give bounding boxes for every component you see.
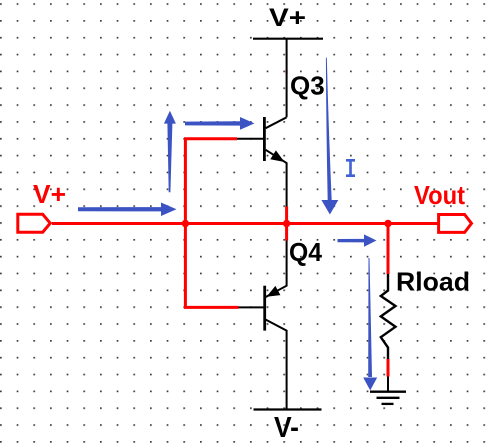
power symbol V+ rail [253,38,323,40]
wire red vertical base bus [184,139,187,308]
resistor Rload [381,274,396,359]
wire Q3 base black segment [237,138,264,140]
svg-text:Q3: Q3 [290,71,325,101]
annotation arrow up along bus [164,111,176,193]
annotation arrow into Rload (right) [338,234,377,246]
junction node at Rload/Vout [384,220,391,227]
wire Q3 collector vertical [286,39,288,118]
label I (current) [346,159,355,177]
svg-text:Rload: Rload [396,267,470,297]
svg-text:V-: V- [274,412,299,444]
junction node at V+ bus [182,220,189,227]
wire red branch to Q3 base [184,137,237,140]
annotation arrow into Q3 base [185,117,255,130]
annotation arrow into V+ bus (right) [78,203,177,217]
svg-text:Q4: Q4 [289,237,323,267]
ground [370,392,406,404]
wire red branch to Q4 base [184,306,239,309]
svg-text:V+: V+ [269,4,306,32]
junction node at Q3/Q4 emitters [283,220,290,227]
wire red fleck on Q3 collector [286,70,288,74]
transistor Q4 (PNP) [265,241,287,409]
wire red main horizontal net (V+ input to Vout) [52,222,439,225]
svg-text:Vout: Vout [414,180,465,210]
svg-text:V+: V+ [33,179,66,209]
port P2 Vout output [439,215,472,233]
power symbol V- rail [254,408,322,410]
wire red Rload bottom segment [387,359,390,377]
port P1 V+ input [18,214,50,232]
wire Rload to ground [387,377,389,392]
wire Q4 base black segment [239,306,265,308]
transistor Q3 (NPN) [264,117,286,207]
annotation arrow current I down (Q3 emitter) [321,58,338,215]
wire red Q3 emitter segment [285,207,288,225]
wire red Rload top segment [387,222,390,274]
wire red Q4 emitter segment [285,223,288,241]
annotation arrow down through Rload to ground [363,258,377,390]
